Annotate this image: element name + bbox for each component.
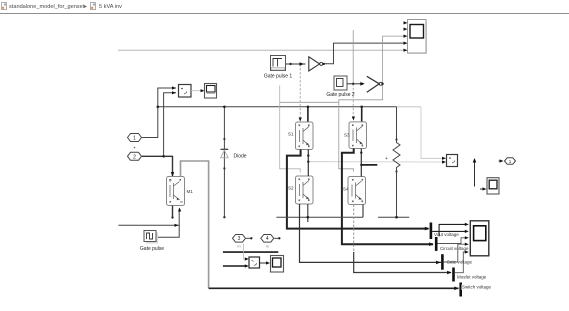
svg-text:In: In: [237, 244, 240, 249]
svg-text:1: 1: [133, 136, 136, 142]
svg-text:5 kVA inv: 5 kVA inv: [99, 4, 122, 10]
svg-text:Gate pulse 2: Gate pulse 2: [326, 92, 355, 98]
svg-text:+: +: [385, 156, 388, 162]
svg-text:▸: ▸: [84, 4, 87, 10]
svg-text:standalone_model_for_genset: standalone_model_for_genset: [9, 4, 85, 10]
svg-text:S3: S3: [344, 133, 350, 138]
svg-text:In: In: [266, 244, 269, 249]
svg-text:M1: M1: [187, 189, 194, 194]
svg-text:4: 4: [266, 236, 269, 242]
svg-text:Vout voltage: Vout voltage: [434, 232, 459, 237]
svg-text:Switch voltage: Switch voltage: [462, 285, 492, 290]
svg-text:Gate pulse: Gate pulse: [140, 246, 164, 252]
svg-text:3: 3: [238, 236, 241, 242]
svg-text:S2: S2: [288, 186, 294, 191]
svg-text:Circuit voltage: Circuit voltage: [440, 246, 469, 251]
svg-text:Mosfet voltage: Mosfet voltage: [457, 275, 487, 280]
svg-text:S1: S1: [288, 132, 294, 137]
svg-text:Gate pulse 1: Gate pulse 1: [264, 74, 293, 80]
svg-text:Diode: Diode: [234, 154, 247, 160]
svg-text:m: m: [180, 200, 183, 204]
svg-text:S4: S4: [343, 187, 349, 192]
svg-text:2: 2: [133, 154, 136, 160]
